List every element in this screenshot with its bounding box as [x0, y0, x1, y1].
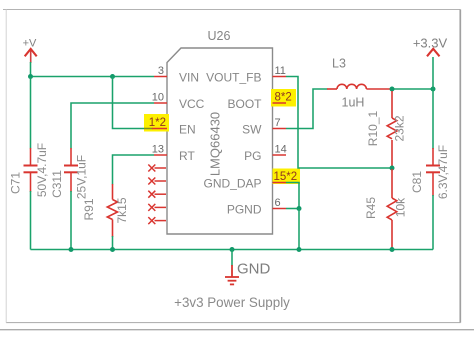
svg-text:C71: C71 — [9, 172, 23, 194]
pin GND_DAP stub — [273, 182, 287, 184]
wire PGND net — [286, 208, 299, 210]
svg-text:RT: RT — [179, 149, 195, 163]
svg-text:C311: C311 — [50, 170, 64, 198]
svg-text:GND_DAP: GND_DAP — [203, 177, 261, 191]
svg-text:1*2: 1*2 — [149, 117, 166, 129]
junction C311 gnd — [69, 247, 74, 252]
wire C71 branch lower — [30, 191, 32, 250]
junction PGND gnd — [297, 247, 302, 252]
pin 3 VIN stub — [154, 76, 167, 78]
junction R45 gnd — [390, 247, 395, 252]
svg-text:+3.3V: +3.3V — [413, 36, 448, 51]
svg-text:7k15: 7k15 — [115, 197, 129, 223]
pin 7 SW stub — [273, 128, 287, 130]
wire SW to L3 — [286, 89, 328, 129]
svg-text:EN: EN — [179, 123, 196, 137]
junction +3.3V node — [431, 87, 436, 92]
svg-text:50V,4.7uF: 50V,4.7uF — [35, 143, 49, 197]
svg-text:14: 14 — [275, 144, 287, 156]
svg-text:L3: L3 — [332, 57, 346, 71]
junction PGND node — [297, 206, 302, 211]
wire VIN rail — [31, 76, 155, 78]
svg-text:LMQ66430: LMQ66430 — [208, 112, 223, 176]
junction R91 gnd — [110, 247, 115, 252]
svg-text:PGND: PGND — [227, 203, 262, 217]
svg-text:U26: U26 — [208, 29, 231, 43]
pin 10 VCC stub — [154, 102, 167, 104]
svg-text:8*2: 8*2 — [275, 92, 292, 104]
junction +V node — [28, 74, 33, 79]
wire PGND to rail — [298, 209, 300, 250]
pin 6 PGND stub — [273, 208, 287, 210]
svg-text:VOUT_FB: VOUT_FB — [206, 71, 261, 85]
wire EN — [113, 77, 153, 129]
svg-text:10k: 10k — [394, 197, 408, 217]
pin BOOT stub — [273, 102, 287, 104]
svg-text:GND: GND — [237, 261, 271, 278]
highlight GND_DAP pin 15*2 — [273, 169, 301, 185]
svg-text:BOOT: BOOT — [227, 97, 262, 111]
wire RT — [113, 155, 155, 185]
wire +V stub — [30, 62, 32, 77]
junction FB node — [390, 166, 395, 171]
pin 13 RT stub — [154, 154, 167, 156]
resistor R45 — [387, 169, 397, 248]
wire C81 upper — [432, 89, 434, 149]
resistor R10_1 — [387, 91, 397, 167]
resistor R91 — [107, 184, 117, 237]
svg-text:23k2: 23k2 — [393, 115, 407, 141]
power symbol +3.3V — [413, 36, 448, 57]
wire VOUT rail — [392, 88, 433, 90]
ground symbol — [225, 250, 271, 285]
svg-text:11: 11 — [275, 65, 286, 77]
svg-text:7: 7 — [275, 117, 281, 129]
wire EN under highlight — [144, 128, 153, 130]
junction GND symbol node — [230, 247, 235, 252]
svg-text:6.3V,47uF: 6.3V,47uF — [436, 145, 450, 199]
wire C311 lower — [70, 191, 72, 250]
unconnected pins with X marks — [148, 165, 166, 225]
svg-text:R45: R45 — [364, 197, 378, 219]
svg-text:SW: SW — [242, 123, 262, 137]
svg-text:1uH: 1uH — [342, 96, 365, 110]
svg-text:R91: R91 — [82, 198, 96, 220]
wire +3.3V stub — [432, 57, 434, 89]
wire R91 lower — [112, 236, 114, 250]
pin EN stub — [152, 128, 167, 130]
svg-text:15*2: 15*2 — [274, 171, 298, 183]
capacitor C71 — [24, 148, 38, 192]
capacitor C311 — [64, 148, 78, 192]
svg-text:10: 10 — [152, 92, 164, 104]
capacitor C81 — [426, 148, 440, 196]
svg-text:PG: PG — [244, 149, 261, 163]
junction VIN/EN node — [110, 74, 115, 79]
inductor L3 — [327, 84, 392, 89]
schematic frame — [3, 9, 461, 11]
svg-text:+V: +V — [23, 38, 37, 50]
svg-text:R10_1: R10_1 — [366, 111, 380, 147]
svg-text:3: 3 — [158, 65, 164, 77]
svg-text:6: 6 — [275, 197, 281, 209]
junction L3 out — [390, 87, 395, 92]
svg-text:VCC: VCC — [179, 97, 205, 111]
wire C71 branch upper — [30, 77, 32, 149]
power symbol +V — [23, 38, 37, 64]
highlight EN pin 1*2 — [144, 114, 169, 132]
wire VCC — [71, 103, 154, 149]
pin 14 PG stub — [273, 154, 287, 156]
svg-text:VIN: VIN — [179, 71, 199, 85]
wire C81 lower — [432, 195, 434, 250]
highlight BOOT pin 8*2 — [271, 89, 296, 107]
wire GND_DAP net — [286, 183, 299, 209]
svg-text:+3v3 Power Supply: +3v3 Power Supply — [174, 295, 290, 310]
svg-text:25V,1uF: 25V,1uF — [75, 155, 89, 199]
svg-text:13: 13 — [152, 144, 164, 156]
IC U1 body — [167, 48, 273, 234]
svg-text:C81: C81 — [410, 171, 424, 193]
pin 11 VOUT_FB stub — [273, 76, 287, 78]
wire GND rail — [31, 249, 434, 251]
wire FB net — [286, 77, 392, 169]
